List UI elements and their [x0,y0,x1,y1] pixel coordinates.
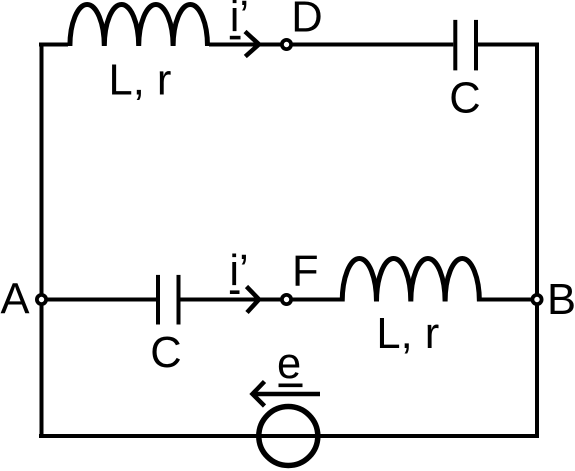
svg-text:i’: i’ [230,0,249,41]
svg-text:A: A [1,276,30,324]
svg-text:i’: i’ [229,247,248,295]
svg-text:e: e [277,340,301,388]
svg-text:L, r: L, r [376,310,439,358]
svg-text:L, r: L, r [109,57,172,105]
svg-text:B: B [547,276,575,324]
svg-text:C: C [449,75,480,123]
svg-text:D: D [291,0,322,41]
svg-text:C: C [150,329,181,377]
svg-text:F: F [292,248,319,296]
